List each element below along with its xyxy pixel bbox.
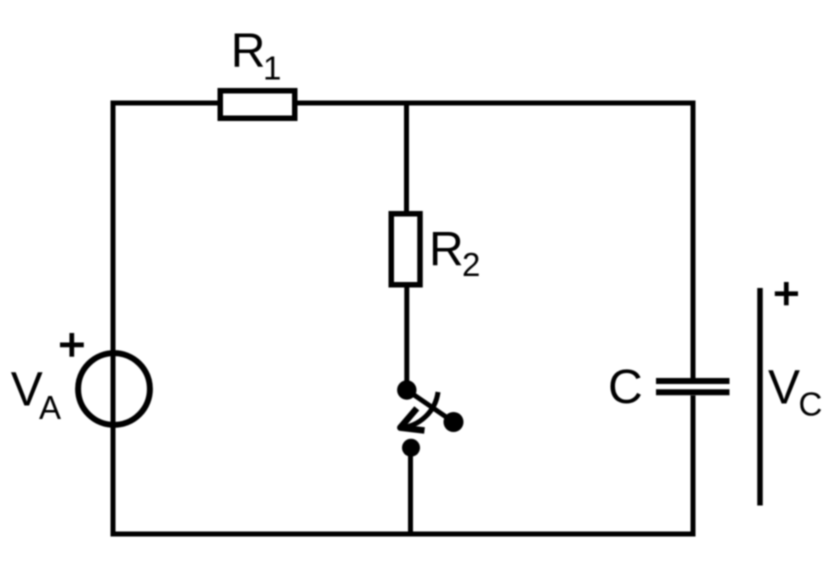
svg-text:A: A (39, 389, 61, 426)
wire top (node from VA+ through R1 to top node) (111, 101, 696, 106)
wire R2 to switch top contact (404, 285, 409, 386)
resistor R2 (box) (391, 214, 420, 285)
svg-text:1: 1 (263, 50, 281, 87)
label VC (768, 361, 822, 422)
svg-text:2: 2 (462, 246, 480, 283)
switch blade (407, 390, 454, 422)
label R1 (231, 25, 282, 87)
plus sign at VA (60, 333, 84, 357)
switch arrow head (400, 408, 424, 430)
wire right lower (capacitor bottom plate to bottom wire) (691, 396, 696, 537)
svg-text:V: V (768, 361, 800, 414)
VC reference line (757, 288, 763, 506)
svg-text:C: C (608, 361, 643, 414)
svg-text:R: R (429, 224, 464, 277)
label VA (11, 364, 61, 426)
label R2 (429, 224, 480, 284)
wire left (VA branch) (111, 101, 116, 537)
wire middle upper (top node down to R2) (404, 103, 409, 213)
plus sign at VC (775, 282, 798, 305)
svg-text:R: R (231, 25, 266, 78)
switch motion arc arrow (400, 392, 438, 428)
voltage source VA (circle) (78, 353, 150, 425)
wire switch bottom contact to bottom wire (408, 448, 413, 534)
svg-text:V: V (11, 364, 43, 417)
switch blade end dot (444, 412, 464, 432)
capacitor C (plates) (656, 381, 730, 392)
svg-text:C: C (799, 385, 823, 422)
resistor R1 (box) (220, 91, 295, 119)
switch top contact dot (397, 380, 416, 399)
wire bottom (ground return) (111, 532, 696, 537)
wire right upper (top node to capacitor top plate) (691, 101, 696, 379)
switch bottom contact dot (402, 439, 420, 457)
